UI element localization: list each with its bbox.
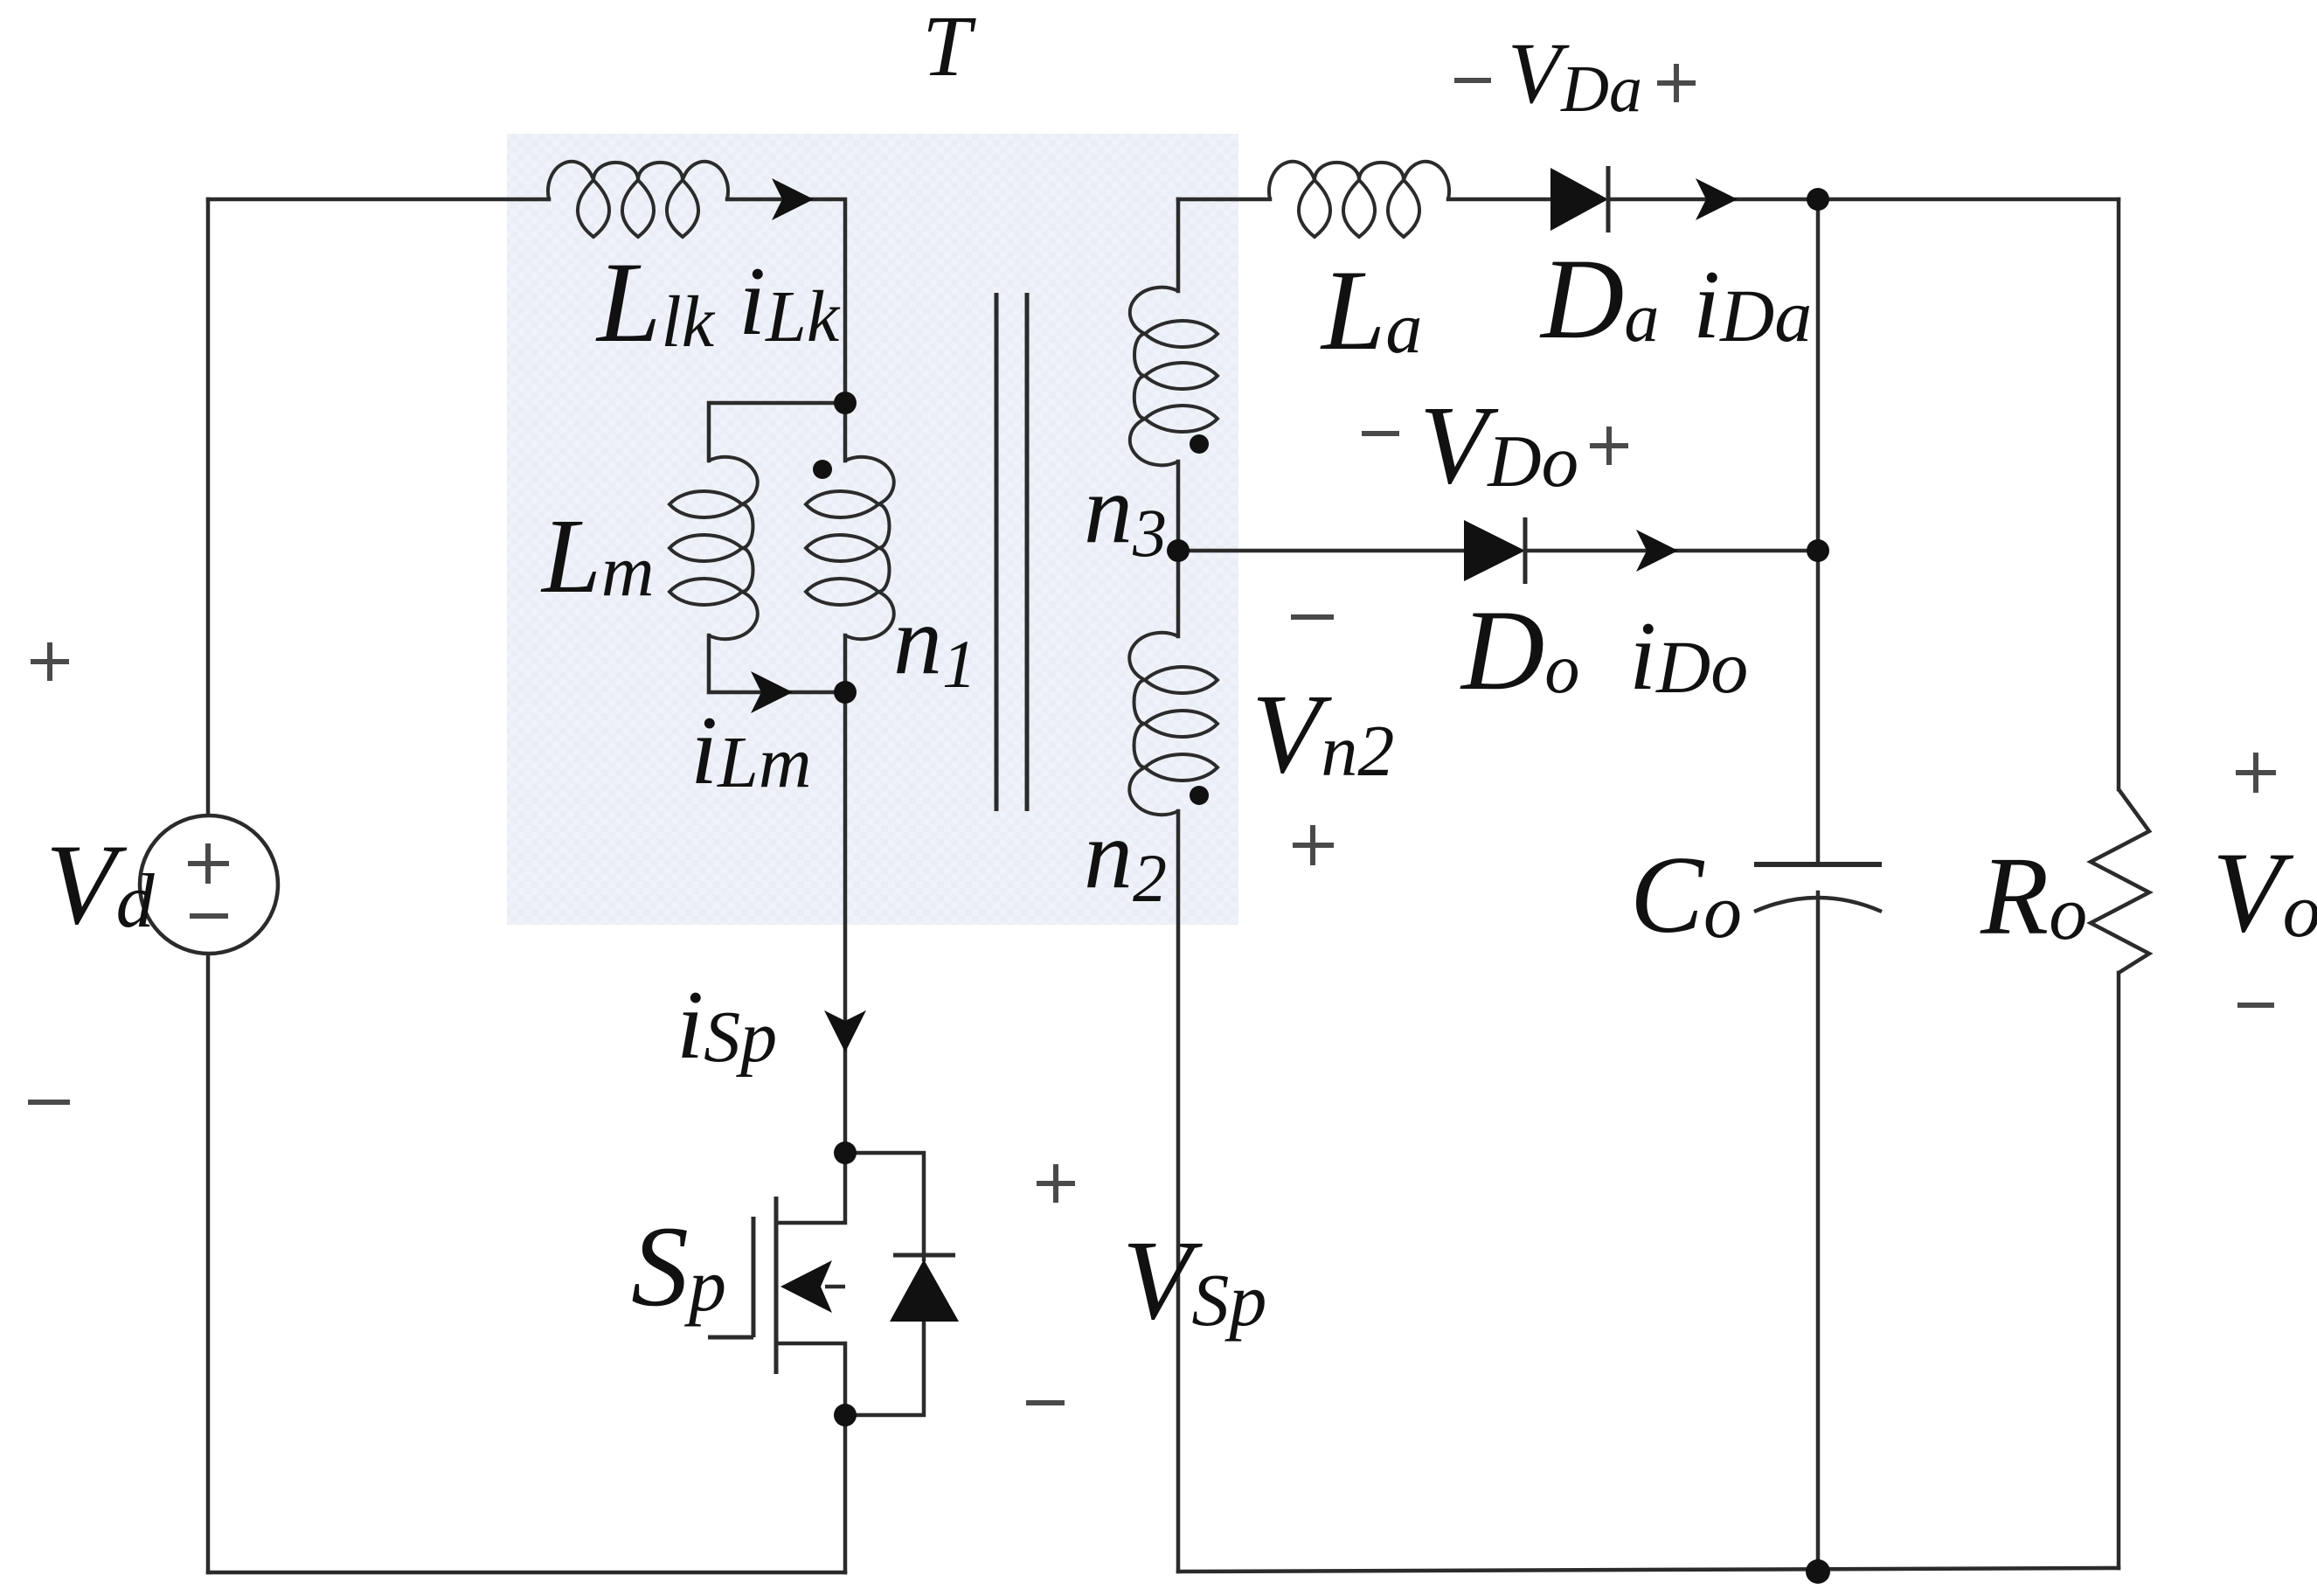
wire capacitor branch upper (1816, 199, 1821, 864)
inductor La (1269, 162, 1449, 237)
diode Da (1550, 168, 1608, 231)
label VSp with + and - (1026, 1164, 1075, 1403)
MOSFET Sp (708, 1197, 776, 1374)
current arrow iLm (751, 671, 793, 713)
capacitor Co (1754, 862, 1882, 867)
wire right rail down to Ro (2117, 199, 2121, 789)
node E (bottom rail junction) (1806, 1559, 1830, 1584)
winding n2 (1129, 633, 1217, 815)
inductor Llk (548, 162, 728, 237)
inductor Lm (magnetizing) (669, 457, 758, 639)
node drain (834, 1141, 857, 1164)
wire left vertical from top to Vd (206, 199, 211, 815)
wire top-left from source to Llk (208, 198, 549, 202)
wire Vd bottom to bottom-left corner (206, 954, 211, 1572)
wire secondary bottom rail (1178, 1568, 2119, 1572)
wire secondary top rail to La (1178, 198, 1270, 202)
wire bottom primary loop (208, 1571, 845, 1575)
winding n1 (806, 457, 894, 639)
wire Lm branch bottom (709, 635, 845, 692)
wire tap node to n2 top (1176, 551, 1181, 636)
polarity dot n1 (813, 460, 832, 479)
voltage source Vd (140, 815, 278, 954)
node C (Da output) (1807, 188, 1829, 211)
resistor Ro (2091, 789, 2149, 973)
wire Do branch from tap node (1178, 549, 1464, 553)
wire n2 bottom down to secondary bottom rail (1176, 811, 1181, 1572)
node A (top of n1) (834, 392, 857, 414)
body diode of Sp (890, 1259, 959, 1322)
polarity dot n3 (1190, 434, 1209, 454)
wire Llk to primary corner and down to node A (727, 199, 845, 403)
wire secondary top corner down to n3 (1176, 199, 1181, 291)
MOSFET arrow (780, 1260, 832, 1313)
wire Da to output node (1608, 198, 2119, 202)
wire primary vertical n1 top stub (843, 403, 848, 461)
wire Do to capacitor node (1525, 549, 1818, 553)
wire Lm branch top (709, 403, 845, 461)
node tap (n3/n2 junction) (1167, 539, 1190, 562)
label -VDo+ (1362, 431, 1399, 436)
winding n3 (1130, 288, 1217, 466)
transformer shaded box T (507, 134, 1238, 925)
node B (bottom of n1) (834, 681, 857, 704)
wire MOSFET source to bottom (843, 1415, 848, 1572)
wire MOSFET drain stub (776, 1153, 845, 1223)
node D (Do output) (1807, 539, 1829, 562)
diode Do (1464, 520, 1525, 581)
node source (834, 1404, 857, 1426)
current arrow iSp (824, 1010, 866, 1052)
label -VDa+ (1454, 78, 1491, 83)
label Vn2 with - and + (1291, 614, 1334, 620)
svg-text:T: T (922, 0, 976, 94)
wire MOSFET source stub (776, 1343, 845, 1415)
transformer core (995, 293, 999, 811)
current arrow iLk (772, 178, 814, 220)
current arrow iDa (1696, 178, 1738, 220)
wire La to diode Da (1448, 198, 1550, 202)
polarity dot n2 (1190, 786, 1209, 805)
wire body-diode branch bottom (845, 1322, 924, 1415)
wire primary down to MOSFET drain (843, 692, 848, 1153)
wire body-diode branch top (845, 1153, 924, 1259)
wire Ro bottom to bottom rail (2117, 973, 2121, 1568)
wire primary vertical n1 bottom stub (843, 635, 848, 692)
wire n3 bottom to tap node (1176, 461, 1181, 551)
current arrow iDo (1636, 530, 1678, 572)
wire capacitor branch lower (1816, 892, 1821, 1572)
